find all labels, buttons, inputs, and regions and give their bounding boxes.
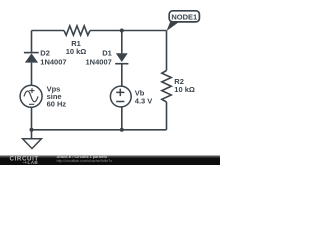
svg-text:-+LAB: -+LAB: [23, 160, 39, 165]
ground: [23, 139, 42, 149]
junction dot bottom (Vb column on bottom rail): [120, 128, 124, 132]
wire D1 to Vb: [121, 64, 123, 86]
diode D2 (pointing up, cathode bar on top): [24, 53, 39, 63]
footer caption text: [57, 155, 113, 163]
wire D2 to Vps: [31, 63, 33, 86]
footer logo CIRCUIT LAB: [10, 156, 39, 166]
svg-text:4.3 V: 4.3 V: [135, 97, 153, 106]
resistor R2: [162, 71, 171, 102]
wire D1 column top (top wire down to D1): [121, 31, 123, 54]
svg-text:10 kΩ: 10 kΩ: [174, 85, 195, 94]
wire top-left horizontal (node corner to R1): [32, 30, 65, 32]
wire Vb to bottom rail: [121, 107, 123, 130]
svg-text:NODE1: NODE1: [171, 12, 197, 21]
svg-text:1N4007: 1N4007: [86, 57, 112, 66]
node flag NODE1 pointer: [167, 19, 180, 32]
svg-text:60 Hz: 60 Hz: [47, 100, 67, 109]
wire top-right horizontal (R1 to NODE1 corner): [90, 30, 167, 32]
svg-text:D2: D2: [40, 49, 50, 58]
svg-text:http://circuitlab.com/c/cache/: http://circuitlab.com/c/cache/9v8e7s: [57, 159, 113, 163]
junction dot top (D1 column on top rail): [120, 29, 124, 33]
resistor R1: [64, 26, 90, 35]
voltage source Vps (sine): [20, 85, 42, 107]
wire right column top (NODE1 corner down to R2): [166, 31, 168, 71]
junction dot bottom-left (ground tap): [30, 128, 34, 132]
svg-text:1N4007: 1N4007: [40, 57, 66, 66]
svg-text:10 kΩ: 10 kΩ: [66, 47, 87, 56]
wire bottom rail: [32, 129, 167, 131]
wire R2 to bottom rail: [166, 102, 168, 130]
wire ground stem: [31, 130, 33, 139]
diode D1 (pointing down, cathode bar below): [115, 53, 128, 63]
node flag NODE1 box: [169, 11, 199, 22]
wire Vps to bottom rail: [31, 107, 33, 130]
svg-text:D1: D1: [102, 49, 112, 58]
wire top-left vertical (corner down to D2): [31, 31, 33, 53]
voltage source Vb (DC): [110, 86, 131, 107]
